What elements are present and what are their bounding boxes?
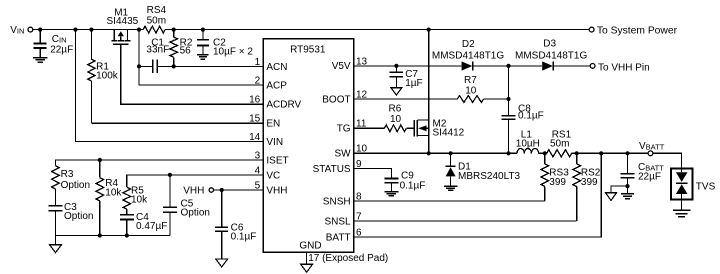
ground (triangle) left of CBATT <box>606 193 617 201</box>
wire STATUS pin 9 to C9 <box>354 169 392 179</box>
junction CBATT top <box>625 151 629 155</box>
ground at CBATT <box>621 194 634 199</box>
wire R6 to M2 gate <box>406 127 414 129</box>
junction R4 top on ISET wire <box>98 158 102 162</box>
svg-text:22µF: 22µF <box>50 44 73 55</box>
resistor R1 100k <box>88 30 119 124</box>
resistor R3 Option <box>52 166 90 206</box>
junction on rail at M2 drain branch <box>427 28 431 32</box>
junction C6 top <box>220 188 224 192</box>
svg-text:ACDRV: ACDRV <box>266 100 301 111</box>
svg-text:To VHH Pin: To VHH Pin <box>598 62 650 73</box>
wire SNSL pin 7 <box>354 220 577 222</box>
svg-text:2: 2 <box>255 76 261 87</box>
junction BATT return branch <box>599 151 603 155</box>
svg-text:BATT: BATT <box>326 232 351 243</box>
svg-text:CIN: CIN <box>52 34 67 45</box>
svg-text:Option: Option <box>181 208 210 219</box>
svg-text:TG: TG <box>337 124 351 135</box>
wire M2 drain to rail and source to SW <box>428 30 430 154</box>
wire SNSH pin 8 <box>354 200 545 202</box>
svg-text:SI4412: SI4412 <box>433 128 465 139</box>
svg-text:15: 15 <box>249 114 261 125</box>
svg-text:100k: 100k <box>96 70 119 81</box>
wire VIN rail (top power rail) <box>33 29 589 31</box>
capacitor CIN 22uF <box>34 30 73 58</box>
junction C5 top on VC wire <box>168 173 172 177</box>
capacitor C2 10uF x2 <box>197 30 253 58</box>
wire R7 to bootstrap node <box>484 98 509 100</box>
wire RS1 to VBATT terminal <box>572 152 648 154</box>
svg-text:R7: R7 <box>464 75 477 86</box>
junction C7 on V5V wire <box>394 64 398 68</box>
resistor R4 10k <box>96 160 122 236</box>
node VHH terminal <box>183 186 213 197</box>
svg-text:V5V: V5V <box>332 61 351 72</box>
inductor L1 10uH <box>516 129 547 153</box>
svg-text:GND: GND <box>299 241 321 252</box>
svg-text:SNSL: SNSL <box>324 216 351 227</box>
svg-text:ACN: ACN <box>266 62 287 73</box>
capacitor C4 0.47uF <box>120 209 168 235</box>
wire pin 17 to ground <box>306 252 308 264</box>
capacitor C8 0.1uF <box>502 66 544 153</box>
svg-text:RS4: RS4 <box>147 5 167 16</box>
node To System Power terminal <box>589 25 677 36</box>
resistor R6 10 <box>384 104 406 132</box>
wire BATT pin 6 return <box>354 153 602 237</box>
svg-text:MBRS240LT3: MBRS240LT3 <box>458 171 521 182</box>
svg-text:VIN: VIN <box>10 25 24 36</box>
svg-text:ACP: ACP <box>266 81 287 92</box>
svg-text:399: 399 <box>581 177 598 188</box>
svg-text:0.1µF: 0.1µF <box>518 110 544 121</box>
capacitor CBATT 22uF <box>621 153 665 186</box>
svg-text:1µF: 1µF <box>405 78 422 89</box>
ground at CIN <box>33 58 47 63</box>
ground at TVS <box>673 210 691 217</box>
wire VHH to IC pin 5 <box>214 189 264 191</box>
resistor RS3 399 <box>541 153 569 201</box>
svg-text:D3: D3 <box>543 38 556 49</box>
svg-text:Option: Option <box>61 180 90 191</box>
IC left pin numbers and names <box>249 57 301 197</box>
wire ACP branch (node before RS4) <box>139 30 263 86</box>
resistor R2 56 <box>170 30 193 67</box>
wire V5V pin 13 to D2 <box>354 65 462 67</box>
wire TVS to ground <box>681 199 683 210</box>
svg-text:10µH: 10µH <box>516 139 540 150</box>
node VBATT terminal <box>639 141 665 156</box>
svg-text:VIN: VIN <box>266 137 283 148</box>
wire D3 to VHH pin terminal <box>553 65 590 67</box>
junction ACN tap on ACP branch <box>137 64 141 68</box>
svg-text:33nF: 33nF <box>146 45 169 56</box>
svg-text:TVS: TVS <box>696 181 716 192</box>
capacitor C5 Option <box>163 175 210 236</box>
junction RS2 top on battery wire <box>575 151 579 155</box>
wire VC pin 4 to R5 <box>127 175 264 187</box>
svg-text:16: 16 <box>249 95 261 106</box>
capacitor C9 0.1uF <box>384 171 425 192</box>
diode D3 MMSD4148T1G <box>515 38 587 70</box>
transistor M1 SI4435 (P-MOSFET) <box>107 8 139 45</box>
svg-text:STATUS: STATUS <box>313 164 351 175</box>
wire VIN pin branch <box>76 30 264 142</box>
svg-text:MMSD4148T1G: MMSD4148T1G <box>432 50 504 61</box>
junction C4 on ground bus <box>125 233 129 237</box>
svg-text:0.1µF: 0.1µF <box>231 232 257 243</box>
svg-text:14: 14 <box>249 132 261 143</box>
svg-text:10µF × 2: 10µF × 2 <box>213 46 253 57</box>
ground at D1 <box>444 186 457 190</box>
IC right pin numbers and names <box>313 56 368 243</box>
svg-text:50m: 50m <box>147 15 166 26</box>
ground at C2 <box>197 55 209 60</box>
resistor RS4 50m (current sense) <box>143 5 166 33</box>
svg-text:10k: 10k <box>131 195 148 206</box>
svg-text:VBATT: VBATT <box>639 141 665 152</box>
svg-text:R3: R3 <box>61 169 74 180</box>
wire analog ground bus <box>56 235 170 237</box>
svg-text:10: 10 <box>390 114 402 125</box>
svg-text:D2: D2 <box>462 39 475 50</box>
svg-text:RT9531: RT9531 <box>290 45 326 56</box>
svg-text:0.47µF: 0.47µF <box>136 221 167 232</box>
wire ACN to IC pin 1 <box>157 65 263 67</box>
wire bus to ground <box>55 236 57 245</box>
svg-text:EN: EN <box>266 119 280 130</box>
svg-text:To System Power: To System Power <box>597 25 678 36</box>
wire VBATT to TVS <box>653 153 682 168</box>
svg-text:MMSD4148T1G: MMSD4148T1G <box>515 50 587 61</box>
junction on rail at CIN <box>38 28 42 32</box>
junction D1 on SW wire <box>449 151 453 155</box>
wire EN to IC pin 15 <box>91 122 263 124</box>
junction bootstrap node <box>506 97 510 101</box>
svg-text:50m: 50m <box>550 139 569 150</box>
junction on rail after M1 <box>137 28 141 32</box>
junction M2 source on SW wire <box>427 151 431 155</box>
wire M1 gate to ACDRV pin 16 <box>121 44 264 104</box>
wire CBATT to earth ground <box>627 186 629 193</box>
svg-text:SI4435: SI4435 <box>107 16 139 27</box>
svg-text:SNSH: SNSH <box>323 196 351 207</box>
svg-text:56: 56 <box>180 45 192 56</box>
capacitor C1 33nF <box>139 37 169 73</box>
svg-text:22µF: 22µF <box>638 172 661 183</box>
ground at C6 <box>216 259 228 267</box>
svg-text:VHH: VHH <box>266 185 287 196</box>
junction C8/BOOT branch on diode wire <box>506 64 510 68</box>
junction RS3/RS1 node <box>543 151 547 155</box>
wire SW pin 10 <box>354 152 518 154</box>
junction R4 on ground bus <box>98 233 102 237</box>
capacitor C3 Option <box>49 202 94 236</box>
svg-text:1: 1 <box>255 57 261 68</box>
op-amp U1 RT9531 charger IC <box>263 39 353 253</box>
ground at C7 <box>391 88 402 95</box>
diode D2 MMSD4148T1G <box>432 39 504 71</box>
node VIN input terminal <box>10 25 33 36</box>
svg-text:SW: SW <box>334 149 351 160</box>
junction on rail at C2 <box>201 28 205 32</box>
node To VHH Pin terminal <box>590 62 649 73</box>
junction on rail after RS4 (R2 top) <box>172 28 176 32</box>
svg-text:10: 10 <box>465 86 477 97</box>
junction on rail at VIN pin branch <box>73 28 77 32</box>
wire BOOT pin 12 to R7 <box>354 98 458 100</box>
svg-text:17 (Exposed Pad): 17 (Exposed Pad) <box>308 253 388 264</box>
junction CBATT ground node <box>625 184 629 188</box>
svg-text:ISET: ISET <box>266 155 288 166</box>
junction R2 bottom on ACN wire <box>172 64 176 68</box>
wire to left power ground <box>611 186 628 193</box>
IC GND pin 17 label <box>299 241 388 265</box>
ground at pin 17 (exposed pad) <box>301 264 313 272</box>
svg-text:VHH: VHH <box>183 186 204 197</box>
diode D1 MBRS240LT3 (catch diode) <box>446 153 521 186</box>
wire TG pin 11 to R6 <box>354 127 385 129</box>
wire D2 cathode to D3 anode <box>473 65 543 67</box>
svg-text:0.1µF: 0.1µF <box>400 181 426 192</box>
junction C8 bottom on SW wire <box>506 151 510 155</box>
resistor R5 10k <box>123 186 148 210</box>
ground at C9 <box>384 192 398 196</box>
junction on rail at R1 <box>89 28 93 32</box>
capacitor C6 0.1uF <box>215 190 256 259</box>
ground at bus <box>50 245 62 253</box>
svg-text:VC: VC <box>266 170 280 181</box>
svg-text:Option: Option <box>64 211 93 222</box>
resistor R7 10 <box>457 75 483 102</box>
capacitor C7 1uF <box>390 66 423 89</box>
resistor RS1 50m <box>547 129 572 157</box>
svg-text:BOOT: BOOT <box>322 94 350 105</box>
resistor RS2 399 <box>573 153 601 221</box>
transistor M2 SI4412 (N-MOSFET) <box>414 118 465 138</box>
wire ISET pin 3 to R3/R4 <box>56 160 264 166</box>
svg-text:10k: 10k <box>105 188 122 199</box>
svg-text:399: 399 <box>549 177 566 188</box>
TVS diode (bidirectional) <box>671 168 716 199</box>
